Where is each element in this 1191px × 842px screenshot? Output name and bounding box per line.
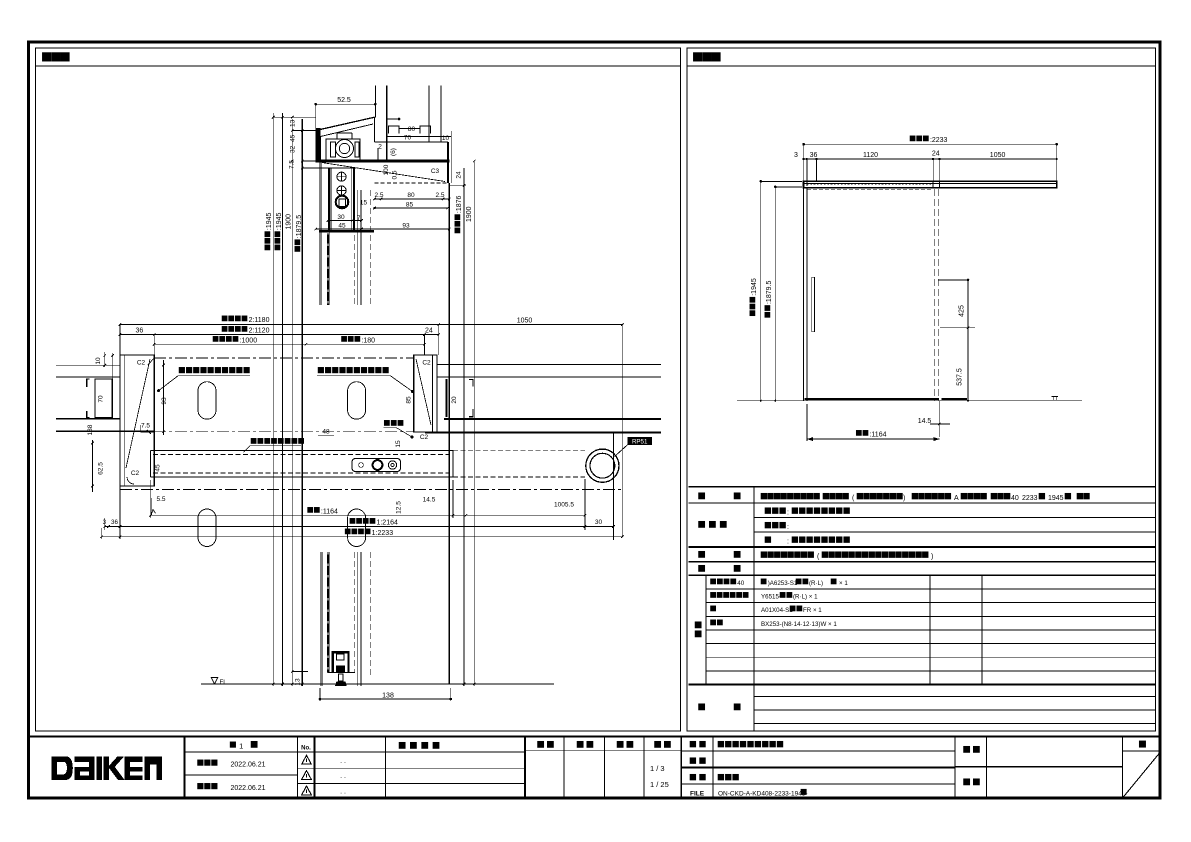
svg-text:14.5: 14.5: [423, 497, 436, 504]
spec table column lines: [753, 487, 755, 731]
svg-text:■: ■: [733, 560, 741, 576]
svg-text:BX253-(N8·14·12·13)W × 1: BX253-(N8·14·12·13)W × 1: [761, 621, 837, 628]
svg-text::: :: [787, 524, 789, 531]
svg-text:C2: C2: [137, 360, 146, 367]
svg-text:30: 30: [337, 214, 345, 221]
svg-text:■■■■■■■■■: ■■■■■■■■■: [717, 736, 784, 751]
wall centerline (dash-dot) upper: [154, 357, 414, 359]
left door frame (plan section): [120, 355, 154, 486]
svg-text:■■: ■■: [689, 736, 708, 751]
svg-text:■■■■■■■■: ■■■■■■■■: [791, 532, 851, 547]
svg-text:C2: C2: [420, 434, 429, 441]
pull handle detail (plan): [352, 459, 401, 472]
svg-text:138: 138: [382, 693, 394, 700]
svg-text:■■: ■■: [654, 736, 674, 752]
svg-text:15: 15: [395, 440, 402, 448]
svg-text::: :: [787, 510, 789, 517]
svg-text:2: 2: [378, 144, 382, 151]
svg-text:C2: C2: [422, 360, 431, 367]
svg-text:C2: C2: [131, 470, 140, 477]
svg-text:■■■: ■■■: [764, 517, 787, 532]
svg-text:5.5: 5.5: [156, 496, 165, 503]
svg-text:24: 24: [456, 171, 463, 179]
wall lines right of frame: [437, 364, 661, 366]
svg-text:85: 85: [406, 396, 413, 404]
svg-text:■■■■■■■■: ■■■■■■■■: [250, 433, 305, 447]
svg-text:1900: 1900: [285, 214, 292, 230]
svg-text:× 1: × 1: [839, 580, 848, 587]
door bottom thick: [805, 398, 940, 400]
svg-text:12.5: 12.5: [396, 501, 403, 514]
dim row 30 7: [328, 220, 362, 222]
svg-text:■: ■: [733, 487, 741, 503]
title block top border: [29, 735, 1161, 737]
FL marker: [211, 678, 217, 684]
dim line 80/70/10 leaders: [399, 128, 420, 130]
svg-text:45: 45: [290, 134, 297, 142]
頁 cell: [1123, 750, 1161, 752]
svg-text:■■■: ■■■: [692, 47, 721, 68]
svg-text:24: 24: [425, 328, 433, 335]
件名 / 担当: [955, 766, 1122, 768]
page diagonal: [1123, 752, 1161, 798]
svg-text:■■■■■■■: ■■■■■■■: [856, 488, 904, 503]
svg-text:■■: ■■: [789, 601, 803, 615]
svg-text:(R·L): (R·L): [809, 580, 823, 587]
svg-text:■■: ■■: [963, 773, 983, 789]
plan dim row2 36 総内幅2:1120 24: [120, 334, 439, 336]
title block vertical dividers: [184, 736, 186, 798]
dim row 85: [375, 207, 448, 209]
svg-text:2022.06.21: 2022.06.21: [231, 785, 266, 792]
svg-text:10: 10: [442, 135, 450, 142]
svg-text:■■: ■■: [616, 736, 636, 752]
svg-text:■■■■■■■■■■: ■■■■■■■■■■: [178, 362, 250, 377]
mid wall centerline dash-dot (below frames): [154, 431, 414, 433]
svg-text:■■: ■■: [795, 574, 809, 588]
RP51 label (reversed): [628, 437, 653, 445]
svg-text:■■■■■■■■■■: ■■■■■■■■■■: [317, 362, 389, 377]
svg-text:■■■: ■■■: [41, 47, 70, 68]
svg-text:62.5: 62.5: [98, 462, 105, 475]
hidden door top dotted: [807, 184, 933, 186]
heavy cut line below door-top detail: [319, 230, 374, 233]
svg-text:2.5: 2.5: [374, 192, 383, 199]
floor guide detail: [332, 651, 350, 654]
svg-text:100: 100: [383, 164, 390, 175]
svg-text:7.5: 7.5: [289, 160, 296, 169]
svg-text:■■■■■■■■: ■■■■■■■■: [760, 547, 815, 562]
svg-text:■: ■: [698, 698, 706, 714]
svg-text:ON-CKD-A-KD408-2233-1945-: ON-CKD-A-KD408-2233-1945-: [718, 791, 808, 798]
svg-text:): ): [903, 495, 905, 502]
dim row 45 93: [316, 228, 450, 230]
svg-text:■: ■: [830, 574, 837, 588]
svg-text:): ): [931, 554, 933, 561]
dim 14.5 below floor: [938, 401, 940, 437]
svg-text:52.5: 52.5: [337, 97, 351, 104]
extension verticals for bottom dims: [119, 486, 121, 539]
svg-text:7.5: 7.5: [141, 423, 150, 430]
roller pulley circle RP51 (plan, right): [586, 449, 619, 482]
svg-text:1050: 1050: [990, 152, 1006, 159]
svg-text:■: ■: [764, 532, 772, 547]
svg-text:■■■■: ■■■■: [398, 737, 443, 753]
svg-text:2022.06.21: 2022.06.21: [231, 761, 266, 768]
plan dim row3 有効開口:1000 / 引残し:180: [154, 343, 424, 345]
svg-text:■■■■: ■■■■: [822, 488, 850, 503]
svg-text:. .: . .: [340, 758, 346, 765]
door leaf top section with screws: [328, 168, 330, 231]
svg-text:■■■■■■: ■■■■■■: [911, 488, 952, 503]
svg-text:■: ■: [250, 736, 258, 752]
cell 第1版: [185, 751, 298, 753]
svg-text:■: ■: [1064, 488, 1072, 503]
svg-text:■■■■■■■■■: ■■■■■■■■■: [760, 488, 821, 503]
name rows: [681, 750, 955, 752]
heavy line top of door opening: [316, 160, 450, 163]
FL floor line: [201, 683, 554, 685]
svg-text:■■■: ■■■: [698, 516, 730, 532]
svg-text:FL: FL: [220, 679, 228, 686]
svg-text:■■: ■■: [689, 769, 708, 784]
svg-text:■■■: ■■■: [990, 488, 1011, 503]
top rail bar: [804, 181, 1057, 187]
svg-text:138: 138: [87, 424, 94, 435]
svg-text:■■■■: ■■■■: [960, 488, 988, 503]
left wall C-channel bracket: [87, 379, 90, 418]
svg-text:2233: 2233: [1022, 495, 1038, 502]
svg-text:. .: . .: [340, 789, 346, 796]
svg-text:■■■: ■■■: [197, 754, 218, 769]
door bottom edge: [328, 672, 356, 674]
svg-text:■■■: ■■■: [197, 778, 218, 793]
svg-text:■: ■: [733, 698, 741, 714]
dim row 2.5 80 2.5: [375, 198, 450, 200]
svg-text:36: 36: [136, 328, 144, 335]
track hood sloped cover: [316, 117, 375, 130]
svg-text:No.: No.: [301, 746, 311, 752]
right panel frame (sho-men-zu front view): [687, 48, 1156, 731]
svg-text:■■■: ■■■: [764, 503, 787, 518]
svg-text:32: 32: [290, 145, 297, 153]
svg-text:FR × 1: FR × 1: [803, 607, 822, 614]
right dims 425 537.5: [967, 280, 969, 401]
headers 承認 確認 作成 縮尺: [525, 750, 681, 752]
svg-text:1 / 3: 1 / 3: [650, 764, 665, 773]
svg-text:93: 93: [402, 223, 410, 230]
svg-text:20: 20: [451, 396, 458, 404]
dim 138 bottom: [320, 698, 451, 700]
svg-text:45: 45: [338, 223, 346, 230]
elevation dim 総外幅:2233: [804, 143, 1057, 145]
svg-text:■■: ■■: [689, 752, 708, 767]
svg-text:13: 13: [290, 119, 297, 127]
left height dims 総外高:1945 / 扉高:1879.5: [760, 181, 762, 400]
right chain dims 総内高:1876 / 1900 rotated: [463, 168, 465, 686]
svg-text:70: 70: [98, 395, 105, 403]
svg-text:■■■: ■■■: [383, 415, 404, 429]
svg-text:14.5: 14.5: [918, 418, 932, 425]
svg-text:1 / 25: 1 / 25: [650, 780, 669, 789]
door panel left edge: [803, 188, 805, 401]
svg-text:■: ■: [1038, 488, 1046, 503]
svg-text:1900: 1900: [466, 206, 473, 222]
svg-text:40: 40: [1011, 495, 1019, 502]
svg-text:■■■■■■■■■■■■■■■■: ■■■■■■■■■■■■■■■■: [821, 547, 929, 562]
svg-text:0.5: 0.5: [392, 170, 399, 179]
svg-text:■■■■■■: ■■■■■■: [710, 588, 749, 602]
svg-text:3: 3: [794, 152, 798, 159]
rail clips (c-channel): [389, 126, 399, 134]
long wall/door vertical lines (center, broken at plan view): [319, 161, 321, 305]
elevation dim row2: 3 36 1120 24 1050: [804, 158, 1057, 160]
svg-text:■■: ■■: [710, 615, 724, 629]
svg-text:FILE: FILE: [690, 791, 705, 798]
right door frame (plan section): [414, 355, 437, 432]
svg-text:Y6515-: Y6515-: [761, 594, 781, 601]
door panel right edge (dashed): [934, 189, 936, 401]
svg-text:■■: ■■: [779, 588, 793, 602]
bottom wall verticals: [319, 552, 321, 686]
lower wall centerline dash-dot: [120, 489, 622, 491]
svg-text:A: A: [954, 495, 959, 502]
spec table outer: [689, 486, 1156, 488]
svg-text:1005.5: 1005.5: [554, 502, 574, 509]
right wall C-channel bracket: [446, 379, 448, 417]
extension lines from dims to rail: [803, 144, 805, 188]
wall lines left of frame: [56, 364, 120, 366]
revision warning triangles: [302, 755, 312, 764]
dim line A 扉幅:1164: [151, 514, 585, 516]
DAIKEN logo: [52, 756, 163, 780]
hanger roller assembly: [326, 139, 360, 161]
spec table row lines: [754, 502, 1156, 504]
svg-text:1120: 1120: [863, 152, 878, 159]
svg-text:(6): (6): [390, 148, 397, 156]
svg-text:■: ■: [694, 625, 702, 641]
svg-text:■■: ■■: [963, 741, 983, 757]
svg-text:80: 80: [407, 192, 415, 199]
left panel frame (dan-men-zu section view): [36, 48, 681, 731]
dim 52.5 over hood: [316, 103, 376, 105]
svg-text:■■■: ■■■: [717, 769, 740, 784]
svg-text:■■: ■■: [1076, 488, 1091, 503]
svg-text:■: ■: [698, 560, 706, 576]
svg-text:. .: . .: [340, 773, 346, 780]
svg-text:13: 13: [295, 678, 302, 686]
upper wall vertical lines above track: [374, 85, 376, 117]
dim line B 総内幅1:2164: [105, 526, 614, 528]
svg-text:537.5: 537.5: [957, 368, 964, 386]
svg-text:■: ■: [710, 601, 717, 615]
svg-text:C3: C3: [431, 168, 440, 175]
svg-text:RP51: RP51: [632, 438, 648, 445]
wall break ovals upper: [198, 382, 216, 420]
No. column + revision rows: [298, 751, 525, 753]
svg-text:36: 36: [810, 152, 818, 159]
plan dim row1 総外幅2:1180 / 1050: [120, 324, 622, 326]
svg-text:(R·L) × 1: (R·L) × 1: [793, 594, 818, 601]
svg-text:■: ■: [1138, 736, 1146, 752]
svg-text:1050: 1050: [517, 318, 533, 325]
svg-text:■: ■: [698, 487, 706, 503]
svg-text:425: 425: [959, 305, 966, 317]
svg-text:45: 45: [155, 464, 162, 472]
rail end bracket symbol: [1052, 396, 1058, 399]
svg-text:70: 70: [404, 135, 412, 142]
svg-text:■: ■: [800, 785, 807, 799]
svg-text:36: 36: [111, 519, 118, 526]
door leaf (plan): [151, 449, 453, 451]
svg-text:85: 85: [406, 202, 414, 209]
rail joint double line at door edge: [932, 181, 934, 187]
svg-text:93: 93: [161, 397, 168, 405]
wall break ovals lower: [198, 509, 216, 547]
vertical dimension chain lines (section heights): [272, 113, 274, 686]
svg-text:24: 24: [932, 151, 940, 158]
svg-text:2.5: 2.5: [435, 192, 444, 199]
svg-text:30: 30: [595, 519, 603, 526]
svg-text:10: 10: [95, 357, 102, 365]
floor line: [737, 400, 1082, 402]
svg-text:■■: ■■: [537, 736, 557, 752]
svg-text:1945: 1945: [1048, 495, 1064, 502]
hidden door extension dashed: [453, 449, 585, 451]
svg-text:■■■■■■■■: ■■■■■■■■: [791, 503, 851, 518]
track box: [375, 141, 448, 143]
dim line C 総外幅1:2233: [102, 536, 623, 538]
dim 扉幅:1164: [807, 438, 939, 440]
door handle (elevation): [812, 277, 815, 332]
svg-text:80: 80: [408, 126, 416, 133]
svg-text::: :: [787, 539, 789, 546]
screw symbols: [337, 172, 346, 181]
svg-text:■■: ■■: [576, 736, 596, 752]
